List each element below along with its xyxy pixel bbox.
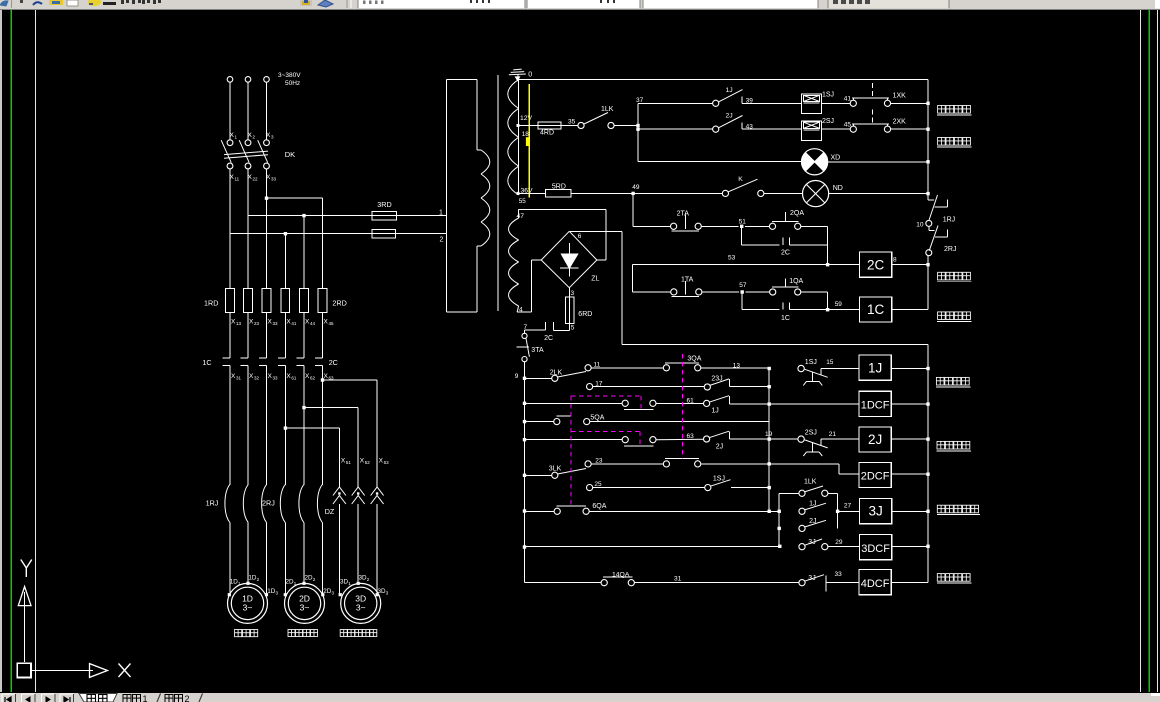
svg-text:2: 2	[185, 694, 190, 702]
svg-text:1SJ: 1SJ	[822, 92, 834, 99]
svg-text:2C: 2C	[867, 257, 885, 272]
svg-text:53: 53	[384, 460, 390, 465]
svg-text:45: 45	[329, 321, 335, 326]
svg-text:3TA: 3TA	[531, 347, 544, 354]
svg-text:1: 1	[439, 210, 443, 217]
svg-text:3~: 3~	[356, 603, 366, 613]
svg-text:1LK: 1LK	[804, 479, 817, 486]
svg-text:1LK: 1LK	[601, 106, 614, 113]
svg-text:1TA: 1TA	[681, 277, 694, 284]
svg-text:1DCF: 1DCF	[861, 400, 890, 412]
svg-text:41: 41	[291, 321, 297, 326]
svg-text:3DCF: 3DCF	[861, 543, 890, 555]
svg-text:61: 61	[291, 375, 297, 380]
svg-text:2RJ: 2RJ	[944, 246, 956, 253]
svg-text:DK: DK	[285, 150, 295, 159]
svg-text:18: 18	[522, 131, 530, 138]
svg-text:1SJ: 1SJ	[713, 476, 725, 483]
svg-text:19: 19	[765, 431, 773, 438]
svg-text:12V: 12V	[520, 115, 533, 122]
svg-text:3~380V: 3~380V	[278, 72, 301, 79]
svg-text:44: 44	[310, 321, 316, 326]
svg-text:2RJ: 2RJ	[262, 499, 275, 508]
svg-text:13: 13	[236, 321, 242, 326]
svg-text:10: 10	[916, 222, 924, 229]
svg-text:33: 33	[271, 177, 277, 182]
svg-text:33: 33	[835, 571, 843, 578]
svg-text:2XK: 2XK	[893, 119, 907, 126]
svg-text:1RJ: 1RJ	[943, 217, 955, 224]
svg-text:1C: 1C	[202, 358, 211, 367]
svg-text:2J: 2J	[809, 518, 816, 525]
svg-text:32: 32	[254, 375, 260, 380]
svg-text:15: 15	[826, 359, 834, 366]
svg-text:6QA: 6QA	[592, 503, 606, 510]
svg-text:3J: 3J	[808, 575, 815, 582]
svg-text:3RD: 3RD	[377, 200, 391, 209]
svg-text:35: 35	[568, 119, 576, 126]
svg-text:59: 59	[835, 301, 843, 308]
svg-text:13: 13	[733, 362, 741, 369]
svg-text:31: 31	[674, 576, 682, 583]
svg-text:22: 22	[253, 177, 259, 182]
svg-text:49: 49	[632, 184, 640, 191]
svg-text:29: 29	[835, 539, 843, 546]
svg-text:1: 1	[143, 694, 148, 702]
svg-text:2LK: 2LK	[550, 370, 563, 377]
svg-text:51: 51	[346, 460, 352, 465]
svg-text:ZL: ZL	[591, 276, 599, 283]
svg-text:55: 55	[519, 198, 527, 205]
svg-text:ND: ND	[833, 185, 843, 192]
svg-text:11: 11	[235, 177, 240, 182]
svg-text:1QA: 1QA	[789, 278, 803, 285]
svg-text:51: 51	[739, 219, 747, 226]
svg-text:52: 52	[365, 460, 371, 465]
svg-text:3J: 3J	[868, 504, 882, 519]
svg-text:53: 53	[728, 255, 736, 262]
svg-text:21: 21	[829, 431, 837, 438]
svg-text:50Hz: 50Hz	[285, 80, 300, 87]
svg-text:33: 33	[273, 375, 279, 380]
svg-text:2DCF: 2DCF	[861, 471, 890, 483]
svg-text:6RD: 6RD	[578, 311, 592, 318]
svg-text:3LK: 3LK	[549, 466, 562, 473]
svg-text:9: 9	[515, 373, 519, 380]
svg-text:5QA: 5QA	[590, 414, 604, 421]
svg-text:8: 8	[893, 257, 897, 264]
svg-text:2TA: 2TA	[677, 211, 690, 218]
svg-text:2C: 2C	[781, 250, 790, 257]
svg-text:14QA: 14QA	[612, 572, 630, 579]
svg-text:2C: 2C	[329, 358, 338, 367]
svg-text:4RD: 4RD	[540, 130, 554, 137]
svg-text:1J: 1J	[868, 360, 882, 375]
svg-text:1C: 1C	[781, 315, 790, 322]
svg-text:3~: 3~	[243, 603, 253, 613]
svg-text:1J: 1J	[711, 408, 718, 415]
svg-text:37: 37	[636, 97, 644, 104]
svg-text:2QA: 2QA	[790, 210, 804, 217]
svg-text:27: 27	[844, 503, 852, 510]
svg-text:5RD: 5RD	[552, 183, 566, 190]
svg-text:3QA: 3QA	[687, 356, 701, 363]
svg-text:61: 61	[687, 397, 695, 404]
svg-text:2SJ: 2SJ	[822, 118, 834, 125]
svg-text:2J: 2J	[868, 432, 882, 447]
svg-text:DZ: DZ	[325, 507, 335, 516]
svg-text:62: 62	[310, 375, 316, 380]
svg-text:1RJ: 1RJ	[206, 499, 219, 508]
svg-text:1J: 1J	[809, 501, 816, 508]
svg-text:6: 6	[578, 233, 582, 240]
svg-text:23J: 23J	[711, 375, 722, 382]
svg-text:2J: 2J	[716, 444, 723, 451]
svg-text:57: 57	[739, 282, 747, 289]
svg-text:4DCF: 4DCF	[861, 578, 890, 590]
svg-text:2C: 2C	[544, 335, 553, 342]
svg-text:K: K	[738, 176, 743, 183]
svg-text:2RD: 2RD	[332, 299, 346, 308]
svg-text:3~: 3~	[300, 603, 310, 613]
svg-text:1XK: 1XK	[893, 93, 907, 100]
svg-text:5: 5	[571, 324, 575, 331]
svg-text:0: 0	[528, 72, 532, 79]
svg-text:33: 33	[273, 321, 279, 326]
svg-text:25: 25	[594, 481, 602, 488]
svg-text:1C: 1C	[867, 302, 885, 317]
svg-text:XD: XD	[831, 155, 841, 162]
svg-text:31: 31	[236, 375, 242, 380]
svg-text:1SJ: 1SJ	[805, 359, 817, 366]
svg-text:2J: 2J	[726, 113, 733, 120]
svg-text:1RD: 1RD	[204, 299, 218, 308]
svg-text:23: 23	[254, 321, 260, 326]
svg-text:3: 3	[571, 290, 575, 297]
svg-text:2: 2	[440, 237, 444, 244]
svg-text:63: 63	[687, 433, 695, 440]
svg-text:3J: 3J	[808, 539, 815, 546]
svg-text:1J: 1J	[726, 87, 733, 94]
svg-text:2SJ: 2SJ	[805, 430, 817, 437]
